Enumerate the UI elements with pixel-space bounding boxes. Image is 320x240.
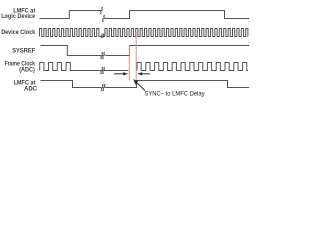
time-break tick on row 1 low level (102, 15, 105, 22)
svg-text:(ADC): (ADC) (19, 66, 35, 73)
svg-text:SYNC~ to LMFC Delay: SYNC~ to LMFC Delay (145, 90, 206, 97)
red marker line 2: delayed LMFC edge (135, 32, 137, 80)
annotation leader line with arrowhead (137, 83, 145, 91)
signal row 2: Device Clock waveform (right of time break) (105, 29, 248, 37)
time-break ticks on Device Clock (101, 34, 103, 38)
signal row 2: Device Clock bottom line across break (100, 36, 105, 38)
signal row 4: Frame Clock low line up to red marker 1 (101, 70, 128, 72)
svg-text:Device Clock: Device Clock (1, 29, 35, 36)
signal row 3: SYSREF waveform (left of time break) (41, 46, 102, 56)
time-break tick on row 1 high level (100, 7, 103, 14)
signal row 1: LMFC at Logic Device waveform (right of time break) (105, 11, 250, 19)
measuring arrow pointing left toward red marker 2 (141, 73, 150, 75)
signal row 4: Frame Clock (ADC) waveform (left burst then low) (40, 63, 101, 71)
svg-text:Logic Device: Logic Device (1, 13, 35, 20)
signal row 1: LMFC at Logic Device waveform (left of time break) (40, 11, 102, 19)
svg-text:SYSREF: SYSREF (12, 47, 35, 54)
signal row 2: Device Clock waveform (left of time break) (40, 29, 101, 37)
measuring arrow pointing right toward red marker 1 (114, 73, 125, 75)
time-break ticks on SYSREF low level (100, 52, 103, 59)
signal row 3: SYSREF waveform (right of time break) (105, 46, 249, 56)
signal row 5: LMFC at ADC waveform (right of time break) (105, 81, 249, 88)
time-break ticks on Frame Clock low level (100, 67, 103, 74)
signal row 4: Frame Clock (ADC) waveform (resumes after delay) (137, 63, 248, 71)
time-break ticks on LMFC at ADC low level (101, 84, 104, 91)
svg-text:ADC: ADC (24, 86, 37, 93)
signal row 5: LMFC at ADC waveform (left of time break) (41, 81, 102, 88)
red marker line 1: SYSREF rising edge (128, 45, 130, 80)
